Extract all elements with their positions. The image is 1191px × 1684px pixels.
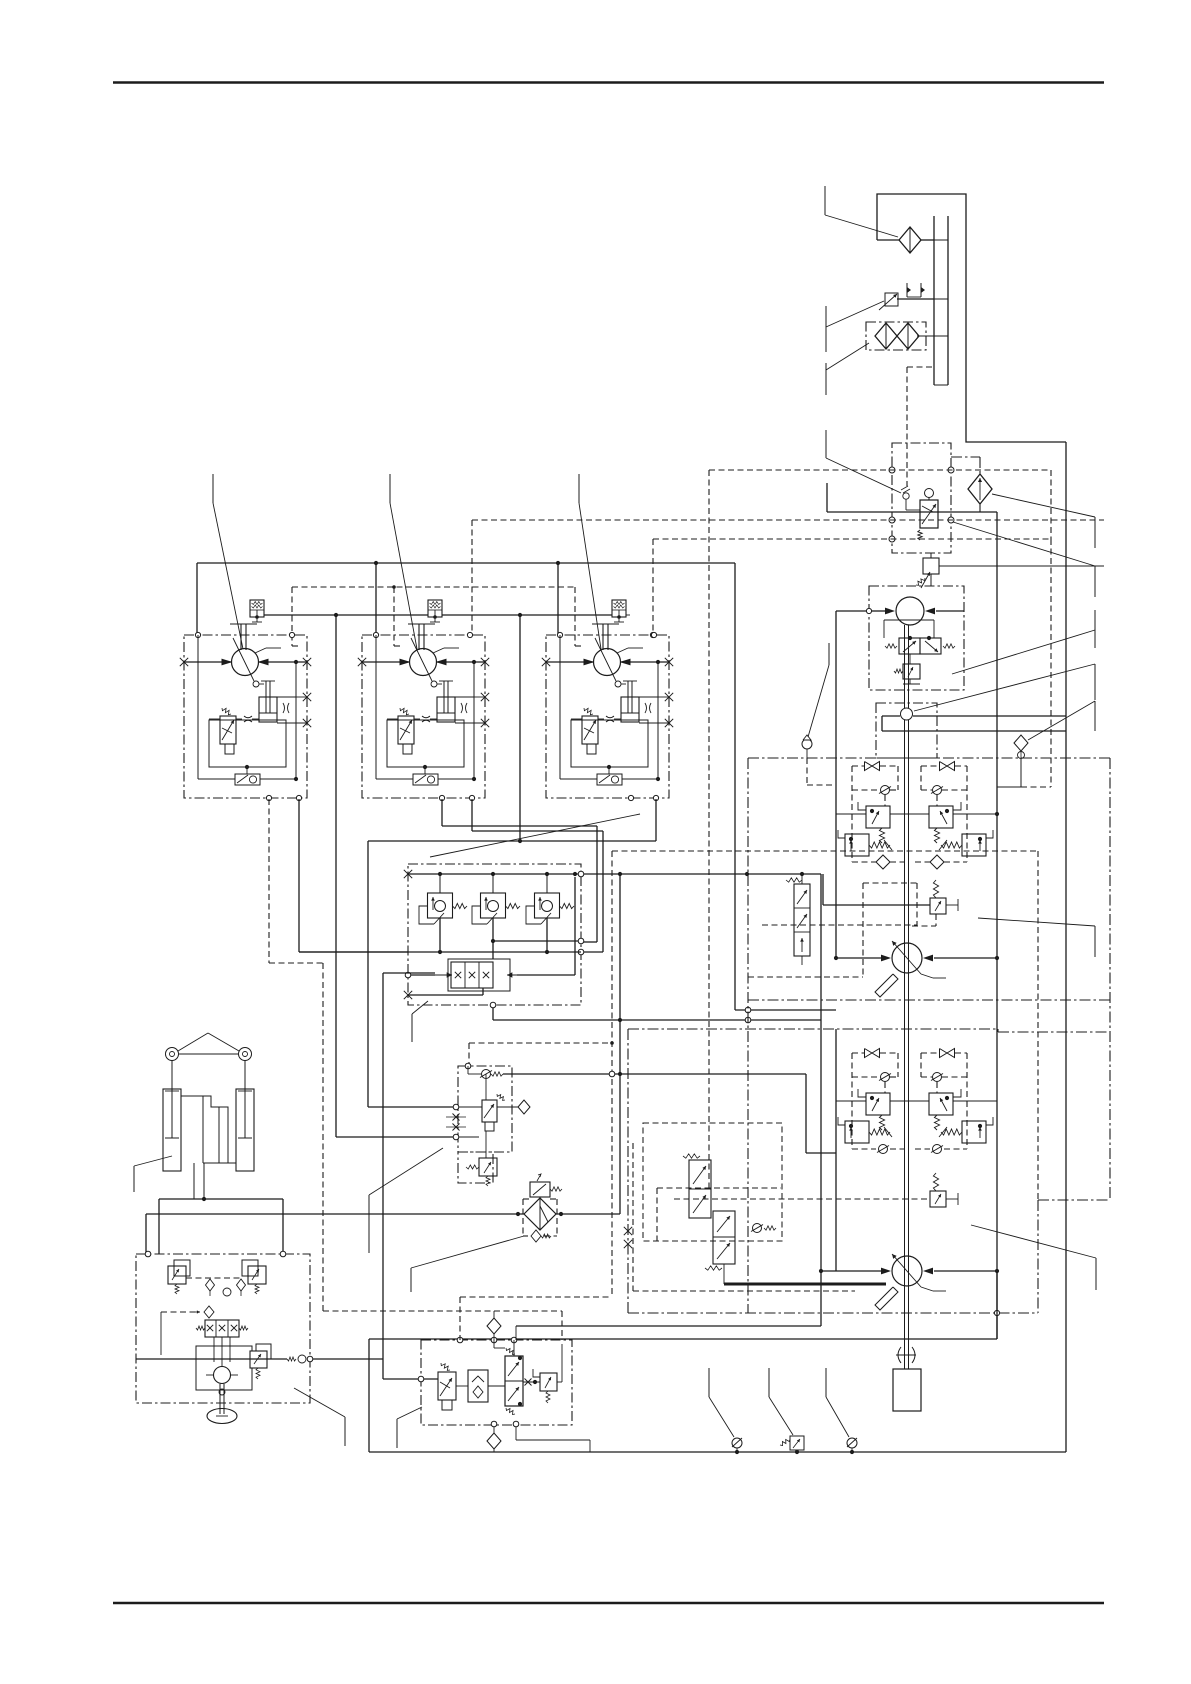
right main relief xyxy=(962,1121,986,1143)
inner circuit box xyxy=(209,720,286,767)
bottom leader 2 xyxy=(768,1368,770,1397)
suction strainer box (dash-dot) xyxy=(866,322,926,350)
pilot valve PV xyxy=(398,716,414,744)
winch motor assembly box at x=546 (dash-dot) xyxy=(546,635,669,798)
pump drive shaft double line xyxy=(904,625,906,1355)
leader upper valve group right xyxy=(978,918,1095,926)
junction circles on U1 box xyxy=(889,467,895,473)
left main relief xyxy=(845,1121,869,1143)
SV1 left port xyxy=(405,972,411,978)
shuttle valve bottom xyxy=(235,774,260,785)
swash diagonal with pivot xyxy=(233,638,254,681)
wire relief to collector xyxy=(626,614,630,616)
return drop inside box xyxy=(657,662,659,779)
bus drop to motor1 xyxy=(196,563,198,636)
bus extension right xyxy=(584,873,821,875)
leader to unloader pilot xyxy=(825,430,827,458)
brake release relief valve xyxy=(250,600,264,617)
cylinder left xyxy=(163,1089,181,1171)
pilot feed y1137 xyxy=(336,1136,453,1138)
pilot valve PV xyxy=(582,716,598,744)
heat exchanger HX xyxy=(524,1198,556,1230)
d3 elbow into motor1 xyxy=(291,587,293,646)
counterbalance cartridge at x=493 xyxy=(481,893,506,918)
right lower port symbol xyxy=(933,1145,942,1154)
brake spring marks xyxy=(283,703,285,713)
swash diagonal with pivot xyxy=(411,638,432,681)
pump3 group side lines xyxy=(835,1029,837,1271)
left pilot relief xyxy=(866,806,890,828)
hydraulic motor M circle xyxy=(232,649,259,676)
cylinder rods xyxy=(171,1060,173,1138)
steering outlet relief xyxy=(256,1344,271,1359)
leader to D3 xyxy=(1028,701,1095,740)
brake spring marks xyxy=(461,703,463,713)
pulley right xyxy=(239,1048,252,1061)
return drop inside box xyxy=(295,662,297,779)
pilot branch down x806 xyxy=(805,1074,807,1153)
steering/LS dashed box upper xyxy=(762,924,917,926)
dashed branch y1043 xyxy=(469,1042,612,1044)
steering wheel xyxy=(207,1409,237,1424)
relief in lower pilot box xyxy=(479,1158,497,1176)
pilot damper on line xyxy=(903,493,909,499)
motor ports & darts xyxy=(546,661,594,663)
leader to filter F1 xyxy=(824,186,826,215)
hydraulic motor M circle xyxy=(594,649,621,676)
motor2 drain b xyxy=(471,799,473,831)
brake spring marks xyxy=(645,703,647,713)
right dash-dot edge x1110 xyxy=(1109,758,1111,1200)
motor ports & darts xyxy=(362,661,410,663)
brake release relief valve xyxy=(612,600,626,617)
box bottom junctions xyxy=(628,795,633,800)
manifold mid line xyxy=(299,951,581,953)
supply line y1010 xyxy=(735,1009,836,1011)
group cross line xyxy=(836,813,866,815)
right needle valve xyxy=(940,762,948,771)
right lower port symbol xyxy=(930,855,944,869)
counterbalance cartridge at x=440 xyxy=(428,893,453,918)
leader to strainer xyxy=(825,363,827,395)
shaft coupling xyxy=(898,1347,901,1363)
pilot control box (dash-dot) xyxy=(458,1066,512,1152)
supply drop inside box xyxy=(197,635,199,779)
motor1 drain dashed xyxy=(268,799,270,963)
relief RV xyxy=(540,1373,557,1391)
right check valve xyxy=(933,786,942,795)
group cross line xyxy=(836,1100,866,1102)
charge box leader xyxy=(397,1407,422,1419)
dash-dot left X marks xyxy=(624,1227,632,1235)
cylinder feed lines xyxy=(193,1163,195,1199)
right check valve xyxy=(933,1073,942,1082)
bottom leader 1 xyxy=(708,1368,710,1397)
manifold bottom line xyxy=(408,994,483,996)
return drop inside box xyxy=(473,662,475,779)
pilot line dashed d1 xyxy=(472,519,1104,521)
solenoid valve SV xyxy=(438,1372,456,1400)
steering inlet dashed with diamond xyxy=(161,1311,200,1313)
supply drop inside box xyxy=(559,635,561,779)
page header rule xyxy=(113,81,1104,83)
right needle valve xyxy=(940,1049,948,1058)
pilot line dashed d2 xyxy=(653,538,1051,540)
inner circuit box xyxy=(571,720,648,767)
motor case line to top right xyxy=(617,648,628,653)
cylinder leader xyxy=(134,1156,172,1166)
priority dashed box xyxy=(643,1123,782,1241)
charge solenoid wires xyxy=(424,1378,438,1380)
leader to unloader box xyxy=(953,522,1095,566)
check symbol b3 xyxy=(847,1438,857,1448)
d3 elbow into motor2 xyxy=(393,587,395,646)
supply drop inside box xyxy=(375,635,377,779)
dashed vertical x612 xyxy=(611,851,613,1297)
steering column xyxy=(219,1389,225,1395)
leader from F2 to right margin xyxy=(992,494,1095,517)
stub ports X xyxy=(446,1116,466,1118)
drain line C vertical xyxy=(382,973,384,1379)
counterbalance cartridge at x=547 xyxy=(535,893,560,918)
wire relief to collector xyxy=(442,614,446,616)
reservoir T1 xyxy=(933,216,935,385)
manifold bottom junction xyxy=(490,1002,496,1008)
pv wires xyxy=(598,718,604,720)
motor ports & darts xyxy=(184,661,232,663)
motor shaft xyxy=(230,623,257,625)
pump1 box (dash-dot) xyxy=(869,586,964,690)
cartridge outlets xyxy=(439,918,441,952)
spool valve SV1 xyxy=(448,959,510,991)
HX check xyxy=(531,1230,541,1242)
wire relief to collector xyxy=(264,614,268,616)
orifice symbol xyxy=(606,716,614,722)
brake lines to box edge xyxy=(277,696,296,698)
brake cylinder xyxy=(621,697,639,722)
engine shaft xyxy=(904,1355,906,1369)
left check valve xyxy=(881,786,890,795)
inner vertical xyxy=(485,1074,487,1100)
priority valve stack lower xyxy=(713,1211,735,1264)
motor2 drain a xyxy=(441,799,443,826)
pilot drop B xyxy=(519,615,521,841)
left main relief xyxy=(845,834,869,856)
d3 elbow into motor3 xyxy=(574,587,576,646)
pump3 ports xyxy=(821,1270,881,1272)
brake lines to box edge xyxy=(455,696,474,698)
brake release relief valve xyxy=(428,600,442,617)
pump3 return to bus xyxy=(995,1269,999,1273)
line to pump3 from charge box xyxy=(516,1325,821,1327)
cooler line y1214 xyxy=(146,1213,524,1215)
steering box leader xyxy=(294,1388,345,1417)
right port path xyxy=(515,1427,517,1440)
motor leaders xyxy=(212,474,214,503)
pump2 circuit lower dash-dot xyxy=(748,999,1110,1001)
pv wires xyxy=(414,718,420,720)
winch motor assembly box at x=362 (dash-dot) xyxy=(362,635,485,798)
dashed vertical right x1051 xyxy=(1050,470,1052,539)
pump1 relief xyxy=(909,654,911,664)
dashed from CV to supply xyxy=(806,758,808,785)
check symbol b1 xyxy=(732,1438,742,1448)
small diamond D3 xyxy=(1014,735,1028,751)
unloader valve V1 xyxy=(920,500,938,528)
inner circuit box xyxy=(387,720,464,767)
main suction bus xyxy=(197,562,735,564)
manifold box (dash-dot) xyxy=(408,864,581,1005)
brake lines to box edge xyxy=(639,696,658,698)
dashed vertical x1038 xyxy=(1037,851,1039,1200)
pilot line dashed d3 xyxy=(292,586,575,588)
motor3 drain xyxy=(655,799,657,841)
yoke block xyxy=(181,1096,228,1163)
HX dashed box xyxy=(522,1199,524,1236)
steering check diamonds xyxy=(186,1277,242,1279)
motor relief collector line xyxy=(264,614,428,616)
pump3 compensator PC3 xyxy=(930,1191,946,1207)
dashed horiz y851 xyxy=(612,850,1038,852)
breather B1 xyxy=(885,293,898,306)
right pilot relief xyxy=(929,806,953,828)
shuttle valve bottom xyxy=(413,774,438,785)
priority pilot check xyxy=(753,1224,762,1233)
pv wires xyxy=(236,718,242,720)
check block xyxy=(468,1370,488,1402)
bus drop to motor2 xyxy=(375,563,377,636)
supply feed x821 xyxy=(820,874,822,1326)
bottom diamond port xyxy=(493,1427,495,1433)
left pilot relief xyxy=(866,1093,890,1115)
pump3 box dash-dot xyxy=(628,1028,998,1030)
heat exchanger bypass valve xyxy=(530,1182,550,1197)
LS dashed line lower xyxy=(674,1198,930,1200)
pilot wires inside U1 xyxy=(906,443,908,486)
check valve CV-top with leader xyxy=(802,739,812,749)
dashed feed 2 xyxy=(323,1310,562,1312)
cable triangle xyxy=(178,1033,208,1051)
pilot line tank to unloader valve (dashed) xyxy=(907,366,934,368)
long leader diagonal center xyxy=(430,814,640,857)
bus drop to motor3 xyxy=(557,563,559,636)
charge valve box (dash-dot) xyxy=(421,1340,572,1425)
steering relief left xyxy=(168,1266,186,1284)
motor shaft xyxy=(408,623,435,625)
SV1 right port xyxy=(517,974,575,976)
engine block xyxy=(893,1369,921,1411)
right line x997 xyxy=(996,512,998,1339)
main spool MV xyxy=(505,1356,523,1406)
orifice symbol xyxy=(244,716,252,722)
tank enclosure box xyxy=(877,194,1066,442)
left needle valve xyxy=(865,762,873,771)
EF valve stack xyxy=(794,884,810,956)
tank bus bottom xyxy=(369,1451,1066,1453)
shaft junction circle xyxy=(901,708,913,720)
wire F1 to box xyxy=(877,239,899,241)
leader lower right xyxy=(971,1225,1096,1258)
leader to junction circle xyxy=(914,664,1095,711)
leader to breather xyxy=(825,306,827,352)
steering unit box (dash-dot) xyxy=(136,1254,310,1403)
pilot box leader xyxy=(369,1148,443,1195)
pilot drop A xyxy=(335,615,337,1137)
MV top/bottom wires xyxy=(513,1340,515,1356)
junction circles on box top xyxy=(373,632,378,637)
pump2 pump symbol xyxy=(892,943,922,973)
SV1 actuator arrows xyxy=(435,974,452,976)
pulley left xyxy=(166,1048,179,1061)
motor case line to top right xyxy=(255,648,266,653)
pump2 compensator PC2 xyxy=(930,898,946,914)
orifice block O1 below unloader xyxy=(930,553,932,558)
page footer rule xyxy=(113,1602,1104,1604)
steering outlet line xyxy=(136,1358,287,1360)
line y1074 to right xyxy=(503,1073,806,1075)
left needle valve xyxy=(865,1049,873,1058)
solenoid valve SP xyxy=(482,1100,497,1122)
LS line to PC2 xyxy=(823,904,930,906)
manifold leader xyxy=(412,1001,428,1014)
right return main x1066 xyxy=(1065,442,1067,1452)
motor case line to top right xyxy=(433,648,444,653)
HX line drop to steering xyxy=(145,1214,147,1254)
brake cylinder xyxy=(259,697,277,722)
line from tank top corner xyxy=(826,483,828,512)
charge return box sides xyxy=(368,1339,370,1452)
pump3 pump symbol xyxy=(892,1256,922,1286)
dash-dot wire U1 to F2 xyxy=(951,456,980,458)
pump2 circuit dash-dot bound top xyxy=(748,757,1110,759)
swash diagonal with pivot xyxy=(595,638,616,681)
check pair above breather xyxy=(906,283,908,297)
dashed inner drain net upper xyxy=(863,882,917,884)
thick control line xyxy=(723,1264,725,1284)
return drop x620 xyxy=(619,874,621,1214)
box bottom junctions xyxy=(266,795,271,800)
left check valve xyxy=(881,1073,890,1082)
wire O1 to right margin xyxy=(939,565,1104,567)
bus drop right to priority valve xyxy=(734,563,736,1010)
motor shaft xyxy=(592,623,619,625)
pilot valve PV xyxy=(220,716,236,744)
steering relief right xyxy=(248,1266,266,1284)
winch motor assembly box at x=184 (dash-dot) xyxy=(184,635,307,798)
steering spool valve xyxy=(205,1320,239,1337)
pilot feed y1107 xyxy=(368,1106,453,1108)
junction circles on box top xyxy=(195,632,200,637)
pump2 ports xyxy=(836,957,881,959)
relief symbol b2 xyxy=(790,1436,804,1450)
unloader valve box U1 (dash-dot) xyxy=(892,443,951,553)
pilot to lower circuit xyxy=(493,1019,821,1021)
right main relief xyxy=(962,834,986,856)
filter F2 xyxy=(968,474,992,504)
top diamond port xyxy=(493,1311,495,1319)
motor1 drain solid xyxy=(298,799,300,952)
pilot line B horizontal xyxy=(368,840,656,842)
pump1 leader xyxy=(952,630,1095,674)
cylinder right xyxy=(236,1089,254,1171)
filter F1 xyxy=(899,227,921,253)
box bottom junctions xyxy=(439,795,444,800)
manifold supply bus xyxy=(408,873,581,875)
HX leader xyxy=(411,1236,524,1268)
PC2 drain dashed xyxy=(935,914,937,926)
return line y1339 xyxy=(369,1338,997,1340)
pump2 circuit left dash-dot edge xyxy=(747,758,749,1313)
diamond port right xyxy=(497,1106,518,1108)
left lower port symbol xyxy=(876,855,890,869)
big dashed box left edge xyxy=(708,470,710,1188)
hydraulic motor M circle xyxy=(410,649,437,676)
brake cylinder xyxy=(437,697,455,722)
strainer S1 diamonds xyxy=(875,323,897,349)
shuttle valve bottom xyxy=(597,774,622,785)
pump1 circle xyxy=(896,597,924,625)
junction circles on box top xyxy=(557,632,562,637)
pump1 inner valves xyxy=(883,620,885,638)
right pilot relief xyxy=(929,1093,953,1115)
return band lines xyxy=(882,715,900,717)
dashed feed top xyxy=(460,1296,612,1298)
priority valve stack upper xyxy=(689,1160,711,1218)
line C to charge box xyxy=(383,1378,438,1380)
gerotor section xyxy=(196,1346,252,1390)
left lower port symbol xyxy=(879,1145,888,1154)
check+spring top xyxy=(482,1070,491,1079)
junction dash-dot box xyxy=(876,703,937,758)
pump2 group side lines xyxy=(835,611,837,958)
bottom leader 3 xyxy=(825,1368,827,1397)
orifice symbol xyxy=(422,716,430,722)
cylinder bus xyxy=(159,1198,283,1200)
